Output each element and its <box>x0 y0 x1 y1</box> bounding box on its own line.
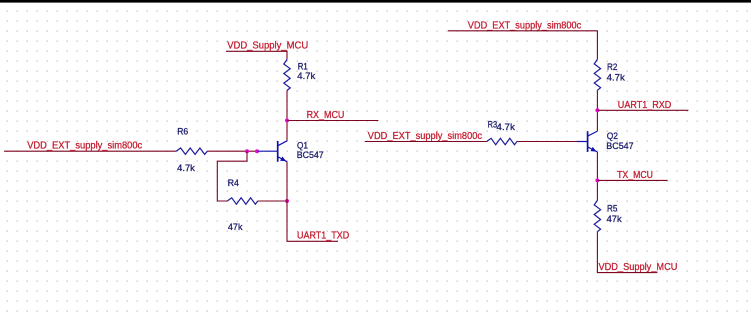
svg-text:4.7k: 4.7k <box>496 122 515 132</box>
svg-text:VDD_Supply_MCU: VDD_Supply_MCU <box>599 262 678 273</box>
resistor R1 <box>284 60 290 91</box>
svg-text:BC547: BC547 <box>297 150 324 160</box>
svg-text:Q2: Q2 <box>607 131 618 141</box>
svg-text:Q1: Q1 <box>297 140 308 150</box>
junction base pin <box>255 149 259 153</box>
junction emitter/R4 node <box>285 199 289 203</box>
svg-text:R5: R5 <box>607 204 617 214</box>
svg-text:RX_MCU: RX_MCU <box>307 110 345 121</box>
svg-text:UART1_TXD: UART1_TXD <box>297 230 349 241</box>
wire R3 to Q2 base <box>517 141 577 143</box>
wire VDD_EXT_supply_sim800c rail (left) <box>4 150 176 152</box>
resistor R6 <box>176 148 207 154</box>
svg-text:VDD_Supply_MCU: VDD_Supply_MCU <box>227 41 308 52</box>
svg-text:TX_MCU: TX_MCU <box>617 170 653 181</box>
svg-text:VDD_EXT_supply_sim800c: VDD_EXT_supply_sim800c <box>368 131 482 142</box>
wire TX_MCU stub <box>597 179 667 181</box>
wire R1 to Q1 collector <box>286 91 288 141</box>
svg-text:4.7k: 4.7k <box>607 72 626 82</box>
junction UART1_RXD node <box>595 108 599 112</box>
transistor Q2 <box>577 131 597 152</box>
svg-text:UART1_RXD: UART1_RXD <box>618 100 672 111</box>
svg-text:R6: R6 <box>177 126 188 136</box>
wire VDD_Supply_MCU stub <box>226 51 287 59</box>
resistor R2 <box>594 59 600 90</box>
top border bar <box>0 0 751 3</box>
svg-text:4.7k: 4.7k <box>177 163 195 173</box>
wire R4 branch <box>217 151 247 201</box>
wire R4 to emitter node <box>258 200 287 202</box>
svg-text:R4: R4 <box>228 178 239 188</box>
wire UART1_RXD stub <box>597 109 688 111</box>
svg-text:R1: R1 <box>298 61 308 71</box>
svg-text:BC547: BC547 <box>606 141 633 151</box>
wire Q2 emitter down <box>596 152 598 200</box>
wire RX_MCU stub <box>287 120 378 122</box>
svg-text:VDD_EXT_supply_sim800c: VDD_EXT_supply_sim800c <box>468 21 581 32</box>
resistor R3 <box>487 138 517 144</box>
svg-text:47k: 47k <box>228 222 243 232</box>
svg-text:VDD_EXT_supply_sim800c: VDD_EXT_supply_sim800c <box>27 140 142 151</box>
svg-text:R2: R2 <box>607 62 617 72</box>
svg-text:4.7k: 4.7k <box>297 71 316 81</box>
junction TX_MCU node <box>595 178 599 182</box>
junction base/R4 branch <box>245 149 249 153</box>
wire R2 to Q2 collector <box>596 90 598 131</box>
wire VDD_EXT_supply_sim800c rail (middle) <box>365 141 487 143</box>
junction RX_MCU node <box>285 119 289 123</box>
resistor R5 <box>594 200 600 231</box>
wire R6 to Q1 base <box>207 150 258 152</box>
wire Q1 emitter down <box>287 162 338 242</box>
transistor Q1 <box>258 141 287 162</box>
svg-text:47k: 47k <box>607 214 623 224</box>
wire R5 to VDD_Supply_MCU <box>597 232 657 273</box>
resistor R4 <box>227 198 257 204</box>
wire VDD_EXT_supply_sim800c rail (top) <box>448 31 597 60</box>
